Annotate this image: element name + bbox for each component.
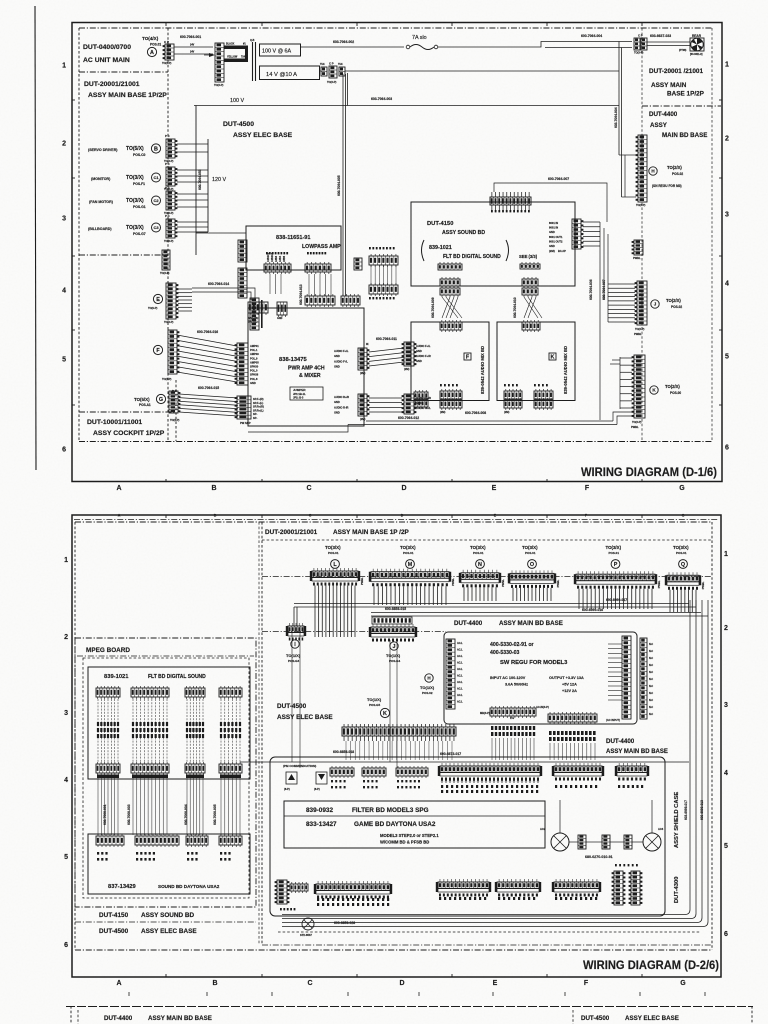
sound bd jumper pads bbox=[187, 852, 189, 855]
link connector pair lower bbox=[404, 394, 414, 414]
wires down from cluster bbox=[599, 222, 601, 420]
box DUT-4150 ASSY SOUND BD bbox=[411, 202, 575, 286]
bottom cluster E bbox=[498, 879, 500, 882]
panel 1 outer border bbox=[72, 23, 722, 482]
dashed boundary right column (main base / bd base) bbox=[641, 28, 643, 441]
jumper box bbox=[290, 387, 323, 400]
box 838-11651-91 LOWPASS AMP bbox=[246, 226, 341, 270]
comb M body bbox=[372, 569, 374, 572]
mix bd 1 criss-cross wires bbox=[442, 297, 458, 318]
comb L body bbox=[313, 568, 315, 571]
ribbon tick cluster bbox=[97, 722, 99, 726]
bottom wrap-around bus wires bbox=[282, 600, 690, 915]
transformer circle 1 bbox=[551, 833, 569, 851]
E terminal connector B bbox=[277, 302, 287, 315]
pwr amp top-left connector bbox=[250, 298, 259, 330]
sound bd top connector bbox=[186, 836, 208, 845]
sw regu bottom connectors bbox=[490, 708, 536, 716]
ribbon cable bbox=[97, 699, 99, 763]
mix bd 2 top stack bbox=[522, 279, 538, 286]
mix bd2 bottom stacks bbox=[504, 391, 522, 399]
bottom inner dash frame bbox=[278, 931, 700, 933]
small connector mid right bbox=[634, 240, 643, 255]
box 100V @ 6A bbox=[260, 44, 301, 56]
flt bd bottom connector bbox=[185, 764, 205, 773]
bus bends up to K bbox=[613, 412, 632, 421]
ribbon tick cluster bbox=[132, 722, 134, 726]
sound bd top connector bbox=[219, 836, 242, 845]
panel 2 inner dash frame bbox=[75, 521, 712, 523]
transformer primary winding thick wires bbox=[224, 46, 248, 50]
sw regu bottom dark ladder rows bbox=[491, 726, 493, 730]
vertical wires from I/J to row bbox=[291, 633, 293, 762]
lowpass connector right bbox=[305, 264, 331, 272]
sound bd box 837-13429 bbox=[88, 834, 250, 894]
box GAME BD bbox=[284, 801, 545, 848]
mix bd 1 sound-side comb bbox=[438, 264, 462, 270]
dash-dot boundary through I J row bbox=[262, 631, 446, 633]
mix board 1 input connector bbox=[404, 342, 414, 366]
flt group fan-in dark band bbox=[97, 775, 119, 779]
sound bd jumper pads bbox=[220, 852, 222, 855]
sound bd jumper pads bbox=[136, 852, 138, 855]
row F connector bbox=[153, 345, 162, 354]
comb O wire fan bbox=[512, 588, 514, 601]
comb I bbox=[289, 623, 291, 626]
bottom cluster G tall bbox=[614, 871, 623, 905]
box 839-0542 AUDIO MIX BD 1 bbox=[411, 322, 489, 401]
flt group fan-in dark band bbox=[186, 775, 204, 779]
flt bd bottom connector bbox=[219, 764, 242, 773]
mix bd 2 top edge connector bbox=[522, 322, 540, 330]
sw regu left connector bbox=[446, 639, 455, 709]
panel 1 border tick marks bbox=[165, 479, 167, 482]
pwr amp input connector AMP01.. bbox=[237, 343, 248, 385]
transformer core bbox=[252, 42, 254, 81]
bottom left cluster bbox=[277, 880, 287, 904]
circle STD-8537 bbox=[302, 918, 314, 930]
wire pair to round connector bbox=[647, 41, 690, 43]
wire fuse to rear connector bbox=[438, 42, 632, 48]
ribbon cable bbox=[220, 699, 222, 763]
comb P body bbox=[577, 571, 579, 574]
ladder connector 238,268 bbox=[238, 268, 247, 298]
ribbon cable bbox=[186, 699, 188, 763]
comb Q wire fan bbox=[669, 590, 671, 612]
box SW REGU FOR MODEL3 bbox=[444, 632, 637, 724]
mix bd 1 top stack bbox=[440, 279, 460, 286]
connector H2 label bbox=[425, 674, 433, 682]
mix bd 1 top edge connector bbox=[440, 322, 462, 330]
ribbon tick cluster bbox=[220, 722, 222, 726]
mix bd 2 criss-cross wires bbox=[524, 297, 538, 318]
bus 690-6999-017 bbox=[294, 603, 689, 605]
flt bd top connector bbox=[185, 688, 205, 697]
wire 14V to right bbox=[345, 70, 619, 72]
box 838-13475 PWR AMP 4CH & MIXER bbox=[248, 308, 364, 426]
comb L wire fan bbox=[314, 586, 316, 637]
bus 600-6999-016 bbox=[371, 612, 701, 614]
connector 341,296 bbox=[341, 296, 360, 305]
flt bd bottom connector bbox=[96, 764, 120, 773]
scan noise overlay bbox=[0, 0, 1, 1]
shield case outline bbox=[270, 757, 665, 916]
box 839-0542 AUDIO MIX BD 2 bbox=[497, 322, 575, 401]
box 839-1021 FLT BD DIGITAL SOUND bbox=[88, 667, 250, 779]
wide comb 600-6873-017 row bbox=[441, 763, 443, 766]
wire TH trio down to 100V bus bbox=[347, 73, 349, 106]
comb 600-6858-018 bbox=[342, 727, 456, 736]
ribbon cable bbox=[132, 699, 134, 763]
mix bd1 bottom stacks bbox=[414, 392, 428, 399]
panel 3 top border bbox=[66, 1006, 753, 1008]
wire comb to sound bd cluster bbox=[494, 183, 607, 222]
bottom cluster F bbox=[555, 879, 557, 882]
bus 120V vertical pair bbox=[195, 106, 197, 256]
wire 14V box to TH trio bbox=[320, 70, 322, 72]
comb row G section bbox=[618, 763, 620, 766]
bottom wide comb B-C bbox=[317, 881, 319, 884]
sw regu right connectors bbox=[608, 643, 622, 645]
comb row F section bbox=[555, 763, 557, 766]
comb M wire fan bbox=[373, 586, 375, 605]
amp column right of lowpass bbox=[369, 256, 398, 265]
box 14V @ 10A bbox=[260, 66, 320, 80]
flt bd top connector bbox=[219, 688, 242, 697]
comb O body bbox=[511, 570, 513, 573]
sound bd jumper pads bbox=[97, 852, 99, 855]
panel 2 outer border bbox=[72, 515, 721, 977]
mix bd 2 sound-side comb bbox=[520, 264, 540, 269]
left inner dash line bbox=[258, 522, 260, 945]
comb J2 upper bbox=[372, 617, 412, 624]
circled letter A bbox=[147, 47, 156, 56]
comb P wire fan bbox=[578, 589, 580, 609]
comb Q body bbox=[668, 572, 670, 575]
sound bd top connector bbox=[96, 836, 124, 845]
dashed boundary AC unit / main base left column bbox=[79, 27, 712, 29]
comb N wire fan bbox=[463, 587, 465, 601]
transformer connectors bbox=[578, 835, 586, 849]
sound bd top connector bbox=[135, 836, 179, 845]
flt group fan-in dark band bbox=[132, 775, 168, 779]
connector K bbox=[634, 355, 645, 418]
connector row y770 small clusters bbox=[330, 768, 354, 776]
ribbon tick cluster bbox=[186, 722, 188, 726]
panel 2 border ticks bbox=[165, 974, 167, 977]
E row terminal connector bbox=[248, 302, 268, 313]
ladder connector 238,240 bbox=[238, 240, 247, 262]
row E connector bbox=[153, 294, 162, 303]
dash-dot boundary through comb row bbox=[262, 576, 712, 578]
lowpass connector left bbox=[264, 264, 291, 272]
flt bd top connector bbox=[131, 688, 169, 697]
flt group fan-in dark band bbox=[220, 775, 241, 779]
small link connector mid bbox=[354, 258, 362, 270]
small connector below C3 bbox=[162, 250, 170, 270]
transformer circle 2 bbox=[643, 833, 661, 851]
comb N body bbox=[462, 570, 464, 573]
wire 600-7064-012 long bottom bbox=[366, 420, 613, 422]
panel 3 tick marks bbox=[128, 992, 130, 996]
pwr amp bottom-left connector SP bbox=[237, 396, 251, 419]
flt bd top connector bbox=[96, 688, 120, 697]
comb J2 lower bbox=[372, 624, 374, 627]
wire pair down right 603-7064-004 bbox=[618, 42, 620, 156]
dashed box MPEG BOARD bbox=[75, 638, 256, 907]
connector J bbox=[637, 281, 647, 325]
wire vertical 600-7064-005 bbox=[342, 74, 344, 296]
flt bd bottom connector bbox=[131, 764, 169, 773]
wire down from 100V bus to elec base bbox=[196, 232, 246, 234]
connector transformer primary bbox=[215, 43, 224, 82]
bottom cluster D bbox=[439, 879, 441, 882]
connector H bbox=[638, 135, 647, 202]
connectors below lowpass bbox=[305, 296, 335, 305]
round connector rear fan symbol bbox=[690, 38, 704, 51]
page left margin line bbox=[35, 6, 36, 470]
